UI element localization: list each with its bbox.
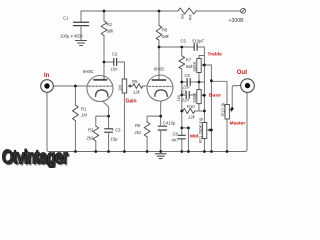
- junction R13 wiper/out: [231, 107, 234, 110]
- wire gain wiper to R5: [131, 85, 132, 87]
- terminal +300B: [241, 8, 246, 13]
- wire anode junction to C2: [104, 61, 114, 63]
- capacitor C8: [178, 135, 185, 139]
- svg-text:68k: 68k: [107, 29, 115, 34]
- capacitor C2 10n: [114, 59, 117, 66]
- svg-text:R9: R9: [180, 14, 185, 20]
- junction cathode V1/R3: [107, 115, 110, 118]
- resistor R10 12k: [183, 108, 195, 113]
- wire R8 branch: [147, 116, 161, 122]
- wire R6 top: [158, 11, 160, 26]
- wire R13 wiper to out jack: [232, 86, 240, 109]
- svg-text:C7: C7: [181, 89, 187, 94]
- label bass pot 500K rotated: [192, 93, 197, 103]
- wire anode2 to C5: [159, 46, 194, 48]
- capacitor C1 electrolytic: [74, 22, 89, 25]
- svg-text:+ C3: + C3: [112, 127, 122, 132]
- svg-text:Out: Out: [237, 70, 247, 76]
- Out jack: [241, 79, 255, 93]
- wire R2 top: [103, 11, 105, 21]
- svg-text:100µ x 450v: 100µ x 450v: [60, 33, 84, 38]
- node dots: [74, 10, 234, 153]
- label gain pot rotated 1M: [118, 85, 123, 91]
- junction rail/R2: [103, 10, 106, 13]
- junction bus/C4: [159, 150, 162, 153]
- svg-text:6H8C: 6H8C: [154, 67, 165, 72]
- wire gain pot bottom to bus: [123, 93, 125, 152]
- junction bus/R1: [74, 150, 77, 153]
- svg-text:22n: 22n: [181, 97, 190, 102]
- wire R3 branch: [96, 116, 109, 126]
- wire out branch from treble wiper: [204, 65, 211, 152]
- wire R6 bottom to anode: [158, 41, 160, 76]
- svg-text:10n: 10n: [111, 67, 119, 72]
- junction bus/R8: [146, 150, 149, 153]
- wire In sleeve down to bus: [47, 93, 49, 152]
- svg-text:R3: R3: [88, 128, 94, 133]
- svg-text:10µ: 10µ: [111, 136, 119, 141]
- wire R7 branch: [181, 47, 183, 56]
- pot R13 1k: [225, 105, 233, 120]
- wire mid stub: [182, 128, 189, 152]
- svg-text:2k2: 2k2: [86, 136, 94, 141]
- svg-text:10µ: 10µ: [168, 121, 176, 126]
- wire tube2 cathode lead: [160, 96, 162, 125]
- wire R3 bottom: [95, 141, 97, 152]
- junction rail/C7: [180, 94, 183, 97]
- wire C6 branch: [182, 81, 205, 83]
- junction R11 wiper: [210, 129, 213, 132]
- resistor R8 2k2: [144, 122, 150, 137]
- watermark Otvintager: [2, 146, 70, 169]
- svg-text:500K: 500K: [192, 93, 197, 103]
- junction mid stub: [187, 127, 190, 130]
- capacitor C4 10u: [158, 126, 166, 130]
- resistor R2 68k: [101, 21, 107, 36]
- junction bus/R13: [226, 150, 229, 153]
- wire R11 bottom to bus: [203, 139, 205, 152]
- label rotated 1k5: [176, 94, 181, 101]
- svg-text:Otvintager: Otvintager: [2, 146, 68, 167]
- junction bus/gain pot: [123, 150, 126, 153]
- svg-text:In: In: [44, 73, 50, 79]
- wire R2 bottom to anode junction: [103, 36, 105, 77]
- junction rail/mid stub: [180, 127, 183, 130]
- svg-text:R6: R6: [162, 28, 168, 33]
- capacitor C3 10u: [105, 129, 113, 132]
- junction bus/C8: [180, 150, 183, 153]
- wire rail bass to pot R11: [203, 95, 205, 122]
- svg-text:R13 1k: R13 1k: [220, 102, 225, 116]
- svg-text:C1: C1: [63, 16, 69, 21]
- wire bass bottom to R10: [198, 104, 200, 111]
- svg-text:+300B: +300B: [229, 18, 245, 24]
- wire C3 bottom to bus: [108, 136, 110, 151]
- capacitor C7 22n: [186, 92, 189, 99]
- wire tube1 cathode lead: [103, 96, 108, 128]
- wire treble top jog: [199, 56, 204, 59]
- svg-text:Treble: Treble: [208, 51, 223, 57]
- junction bus/R3: [94, 150, 97, 153]
- wire rail treble to bass: [203, 65, 205, 95]
- svg-text:R11 250K log: R11 250K log: [198, 117, 203, 143]
- wire R10 branch: [182, 110, 205, 112]
- junction out branch/R13 top: [210, 79, 213, 82]
- svg-text:Gain: Gain: [126, 99, 137, 105]
- wire R1 bottom: [74, 121, 76, 152]
- svg-text:1k5: 1k5: [176, 94, 181, 101]
- junction treble wiper: [203, 64, 206, 67]
- svg-text:Mid: Mid: [190, 133, 198, 139]
- junction grid V1/R1: [74, 85, 77, 88]
- svg-text:R10: R10: [187, 104, 195, 109]
- svg-text:4n7: 4n7: [172, 137, 180, 142]
- wire to R13 top: [211, 81, 227, 104]
- wire In jack to grid tube1: [53, 85, 88, 87]
- ground symbol on bus: [155, 154, 166, 159]
- pot Gain 1M: [122, 79, 131, 93]
- label R11 rotated: [198, 117, 203, 143]
- junction rail/R10: [180, 110, 183, 113]
- resistor R5 12k: [133, 84, 143, 89]
- svg-text:12k: 12k: [188, 115, 196, 120]
- svg-text:68k: 68k: [162, 34, 170, 39]
- svg-text:Master: Master: [230, 120, 246, 126]
- svg-text:6H8C: 6H8C: [83, 69, 94, 74]
- resistor R6 68k: [156, 26, 162, 41]
- svg-text:1M: 1M: [118, 85, 123, 91]
- wire R13 bottom to bus: [226, 119, 228, 152]
- label treble pot 500K rotated: [192, 62, 197, 72]
- In jack: [41, 80, 54, 93]
- labels red: [44, 51, 247, 139]
- wire C8 bottom to bus: [181, 140, 183, 152]
- junction bus/C3: [107, 150, 110, 153]
- svg-text:C8: C8: [173, 131, 179, 136]
- wire C7 branch: [182, 94, 205, 96]
- ground under C1: [76, 41, 87, 46]
- junction bus/mid wire: [187, 150, 190, 153]
- wire B+ rail: [81, 11, 240, 22]
- wire C4 bottom to bus: [160, 133, 162, 152]
- wire C2 to gain pot top: [117, 62, 125, 79]
- svg-text:10k: 10k: [188, 14, 193, 20]
- svg-text:510pF: 510pF: [192, 38, 204, 43]
- wire R7 bottom rail: [181, 69, 183, 135]
- junction C5 line/R7: [180, 46, 183, 49]
- svg-text:C5: C5: [181, 38, 187, 43]
- wire R5 to tube2 grid: [143, 85, 149, 87]
- junction cathode V2/R8: [159, 115, 162, 118]
- resistor R7 56k: [179, 56, 185, 69]
- junction bus/wiper wire: [210, 150, 213, 153]
- wire C5 right to rail: [197, 47, 204, 65]
- tube V1 6H8C: [87, 76, 113, 102]
- junction anode V1/C2: [103, 61, 106, 64]
- svg-text:R1: R1: [81, 107, 87, 112]
- svg-text:1M: 1M: [81, 113, 87, 118]
- resistor R3 2k2: [93, 126, 99, 141]
- label R13 rotated: [220, 102, 225, 116]
- junction rail/R6: [158, 10, 161, 13]
- svg-text:R8: R8: [135, 123, 141, 128]
- svg-text:12k: 12k: [133, 90, 141, 95]
- svg-text:R5: R5: [132, 79, 138, 84]
- tube V2 6H8C: [147, 75, 173, 101]
- svg-text:R2: R2: [107, 22, 113, 27]
- junction R10/right rail: [203, 110, 206, 113]
- wire Out sleeve down: [245, 93, 247, 152]
- junction bus/R11: [203, 150, 206, 153]
- junction C6/treble-bass: [198, 81, 201, 84]
- pot Treble 500K: [197, 59, 205, 73]
- svg-text:C2: C2: [112, 51, 118, 56]
- capacitor C5 510pF: [194, 44, 197, 51]
- wire ground bus: [49, 151, 245, 153]
- junction bass wiper/C7: [203, 94, 206, 97]
- svg-text:500K: 500K: [192, 62, 197, 72]
- resistor R1 1M: [73, 105, 79, 121]
- label R9 rotated: [180, 14, 185, 20]
- junction anode V2/C5: [158, 46, 161, 49]
- wire R8 bottom: [146, 137, 148, 152]
- capacitor C6 22n: [187, 79, 190, 86]
- svg-text:2k2: 2k2: [134, 130, 142, 135]
- resistor R9 series rail: [178, 8, 196, 14]
- svg-text:Bass: Bass: [209, 92, 221, 98]
- pot Bass 500K: [197, 90, 205, 104]
- pot R11 250k log: [202, 123, 211, 139]
- svg-text:C6: C6: [185, 73, 191, 78]
- wire treble bottom to bass top: [198, 73, 200, 90]
- junction rail/C6: [180, 81, 183, 84]
- wire R1 branch: [74, 86, 76, 105]
- labels black: [60, 14, 244, 143]
